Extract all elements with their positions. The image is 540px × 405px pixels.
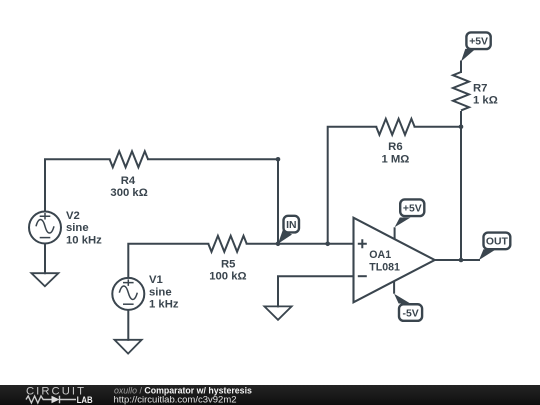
svg-text:100 kΩ: 100 kΩ [209, 270, 246, 282]
op-amp plus input marker [358, 239, 367, 248]
wire output column vertical [460, 127, 462, 260]
svg-text:LAB: LAB [77, 395, 93, 405]
svg-text:10 kHz: 10 kHz [66, 234, 102, 246]
svg-text:IN: IN [286, 220, 296, 231]
svg-text:+5V: +5V [403, 204, 422, 215]
op-amp V- pin [393, 282, 395, 294]
node at R4 corner [276, 157, 281, 162]
wire op-amp minus input to ground [278, 276, 354, 306]
footer title text [114, 385, 253, 405]
svg-text:1 kΩ: 1 kΩ [473, 95, 498, 107]
footer bar [0, 385, 540, 405]
svg-text:sine: sine [66, 222, 89, 234]
svg-text:R4: R4 [121, 175, 136, 187]
wire IN column vertical [277, 159, 279, 244]
voltage source V1 [112, 278, 144, 310]
node IN junction [276, 242, 281, 247]
node feedback junction [325, 242, 330, 247]
flag OUT [479, 233, 510, 260]
ground below V1 [115, 340, 142, 354]
wire feedback left vertical to R6 [328, 127, 377, 244]
wire op-amp output [435, 259, 479, 261]
wire V2 top to R4 left [45, 159, 110, 211]
op-amp OA1 body [354, 218, 435, 303]
resistor R7 [453, 72, 469, 110]
op-amp minus input marker [358, 275, 367, 277]
flag +5V at R7 [461, 32, 491, 61]
op-amp V+ pin [394, 227, 396, 239]
wire R4 right to IN column [148, 158, 278, 160]
footer CircuitLab logo [26, 386, 93, 405]
flag IN [278, 216, 299, 244]
svg-text:OUT: OUT [486, 237, 509, 248]
label R4 value 300 kΩ [110, 175, 147, 199]
svg-text:OA1: OA1 [369, 249, 391, 261]
svg-text:V2: V2 [66, 210, 80, 222]
wire V1 top to R5 left [128, 244, 208, 278]
flag -5V at op-amp [394, 294, 422, 321]
resistor R4 [110, 151, 148, 167]
label V1 sine 1 kHz [149, 274, 179, 310]
voltage source V2 [29, 212, 61, 244]
node R6 R7 junction [459, 125, 464, 130]
svg-text:1 kHz: 1 kHz [149, 299, 179, 311]
svg-text:R5: R5 [221, 258, 235, 270]
svg-text:TL081: TL081 [369, 261, 400, 273]
svg-text:+5V: +5V [469, 37, 488, 48]
svg-text:sine: sine [149, 286, 172, 298]
svg-text:-5V: -5V [403, 308, 419, 319]
svg-text:R7: R7 [473, 83, 487, 95]
svg-text:http://circuitlab.com/c3v92m2: http://circuitlab.com/c3v92m2 [114, 395, 237, 405]
wire R5 right to op-amp plus input [247, 243, 354, 245]
ground below V2 [31, 273, 58, 286]
wire R6 right to node [415, 126, 461, 128]
svg-text:1 MΩ: 1 MΩ [381, 153, 409, 165]
flag +5V at op-amp [395, 199, 425, 227]
svg-text:300 kΩ: 300 kΩ [110, 187, 147, 199]
label V2 sine 10 kHz [66, 210, 102, 246]
label R7 value 1 kΩ [473, 83, 498, 107]
wire R7 bottom stub [460, 112, 462, 127]
ground at op-amp minus input [264, 306, 291, 319]
label OA1 TL081 [369, 249, 400, 274]
node output junction [459, 258, 464, 263]
wire V1 bottom to ground [127, 310, 129, 340]
resistor R6 [376, 119, 414, 135]
svg-text:V1: V1 [149, 274, 163, 286]
label R6 value 1 MΩ [381, 141, 409, 166]
wire V2 bottom to ground [44, 244, 46, 274]
svg-text:R6: R6 [388, 141, 402, 153]
wire R7 top stub [460, 62, 462, 73]
resistor R5 [208, 236, 246, 252]
label R5 value 100 kΩ [209, 258, 246, 282]
